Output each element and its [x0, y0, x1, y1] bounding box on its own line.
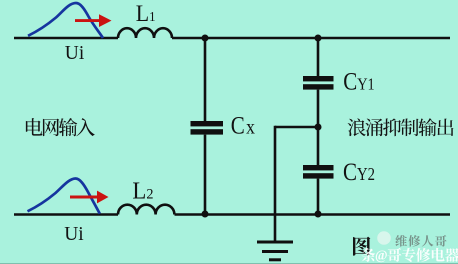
- wire CX lower lead: [204, 135, 207, 215]
- label: grid input 电网输入: [26, 118, 43, 135]
- svg-text:Ui: Ui: [65, 42, 85, 65]
- node CY bottom junction: [315, 211, 322, 218]
- surge waveform top (Ui pulse): [28, 3, 103, 38]
- label: surge-suppressed output 浪涌抑制输出: [348, 118, 366, 136]
- wire ground branch horizontal: [275, 126, 318, 129]
- node CX top junction: [202, 35, 209, 42]
- wire CX upper lead: [204, 38, 207, 121]
- wire top line (right of L1): [172, 37, 450, 40]
- label: figure marker 图: [353, 237, 370, 256]
- wire top line (left of L1): [14, 37, 118, 40]
- surge waveform bottom (Ui pulse): [28, 179, 100, 214]
- svg-text:@: @: [375, 248, 388, 263]
- wire bottom line (right of L2): [175, 213, 451, 216]
- arrow bottom (surge direction): [70, 191, 109, 204]
- capacitor CY2: [303, 165, 334, 170]
- node CY midpoint junction: [315, 124, 322, 131]
- wire bottom line (left of L2): [14, 213, 118, 216]
- svg-text:Ui: Ui: [64, 223, 84, 246]
- watermark badge circle: [377, 231, 391, 245]
- arrow top (surge direction): [75, 14, 112, 27]
- wire CY1-CY2 middle lead: [317, 90, 320, 165]
- capacitor CY1: [303, 76, 334, 81]
- capacitor CX: [191, 121, 224, 126]
- ground: [257, 242, 293, 260]
- inductor L1: [118, 28, 172, 38]
- wire CY1 upper lead: [317, 38, 320, 76]
- watermark line 1: [395, 235, 407, 247]
- node CX bottom junction: [202, 211, 209, 218]
- node CY top junction: [315, 35, 322, 42]
- bottom edge shading: [0, 263, 458, 264]
- watermark line 2: [361, 248, 375, 262]
- inductor L2: [118, 205, 174, 215]
- wire ground branch vertical: [274, 126, 277, 242]
- wire CY2 lower lead: [317, 179, 320, 215]
